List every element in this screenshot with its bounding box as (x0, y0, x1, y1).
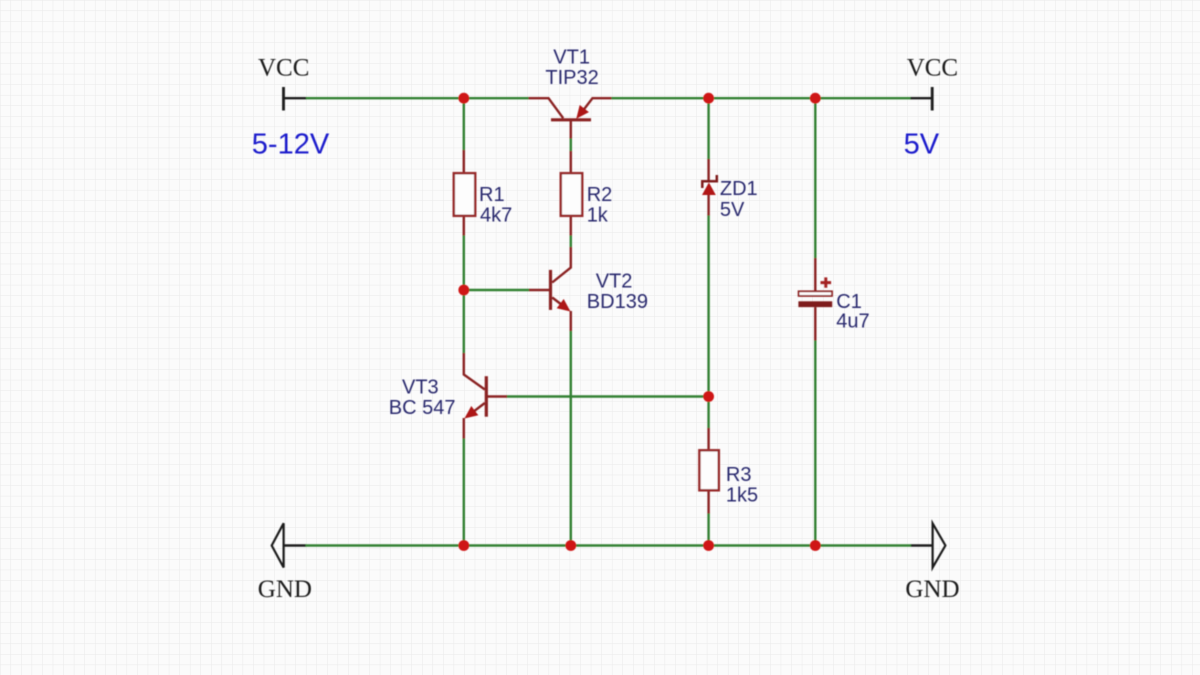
svg-text:ZD1: ZD1 (720, 178, 758, 200)
svg-text:VCC: VCC (907, 54, 958, 81)
transistor Q VT2 (NPN BD139) (529, 247, 571, 331)
svg-text:VT1: VT1 (553, 46, 590, 68)
junction dot top rail / ZD1 (703, 93, 714, 104)
svg-text:R2: R2 (587, 184, 613, 206)
svg-text:R3: R3 (726, 464, 752, 486)
svg-text:5V: 5V (720, 199, 745, 221)
capacitor C1 (polarized) (798, 258, 832, 341)
wire VT2 base horizontal (464, 289, 530, 291)
svg-text:VCC: VCC (258, 54, 309, 81)
svg-text:TIP32: TIP32 (545, 67, 598, 89)
resistor R2 (561, 151, 582, 236)
resistor R1 (454, 150, 475, 236)
junction dot bottom rail / C1 (810, 540, 821, 551)
wire column C (ZD1 to R3) (707, 215, 709, 429)
junction dot bottom rail / VT2 (565, 540, 576, 551)
junction dot bottom rail / VT3 (458, 540, 469, 551)
junction dot R1 / VT2 base (458, 285, 469, 296)
svg-text:VT3: VT3 (402, 376, 439, 398)
svg-text:5V: 5V (904, 128, 940, 160)
svg-text:R1: R1 (479, 184, 505, 206)
zener diode ZD1 (702, 159, 717, 216)
junction dot top rail / R1 (458, 93, 469, 104)
svg-text:5-12V: 5-12V (252, 128, 330, 160)
wire VT3 base horizontal (507, 395, 709, 397)
svg-text:4k7: 4k7 (480, 205, 512, 227)
wire column D (C1 to GND) (814, 340, 816, 546)
svg-text:GND: GND (258, 576, 312, 603)
svg-text:1k: 1k (587, 205, 609, 227)
wire column B (VT2 emitter to GND) (570, 331, 572, 546)
junction dot VT3 base / ZD1-R3 (703, 391, 714, 402)
svg-text:GND: GND (905, 576, 959, 603)
wire column A lower (VT3 emitter to GND) (463, 438, 465, 546)
transistor Q VT1 (PNP TIP32) (529, 98, 612, 138)
wire column A middle (R1 to VT3 collector) (463, 235, 465, 354)
junction dot bottom rail / R3 (703, 540, 714, 551)
wire column B (VT1 base to R2) (570, 138, 572, 152)
wire top rail left segment (306, 97, 529, 99)
junction dot top rail / C1 (810, 93, 821, 104)
ground symbol GND (left) (272, 523, 306, 567)
svg-text:1k5: 1k5 (726, 485, 758, 507)
power terminal VCC (right) (910, 87, 932, 111)
wire bottom GND rail (306, 544, 912, 546)
power terminal VCC (left) (284, 87, 307, 111)
transistor Q VT3 (NPN BC547, mirrored) (464, 353, 507, 439)
svg-text:BC 547: BC 547 (389, 397, 456, 419)
ground symbol GND (right) (911, 523, 946, 567)
resistor R3 (699, 428, 718, 514)
wire top rail right segment (612, 97, 911, 99)
svg-text:4u7: 4u7 (836, 310, 869, 332)
wire column D (VCC to C1) (814, 98, 816, 258)
svg-text:BD139: BD139 (587, 291, 648, 313)
svg-text:VT2: VT2 (596, 270, 633, 292)
wire column B (R2 to VT2 collector) (570, 235, 572, 248)
wire column A upper (VCC to R1) (463, 98, 465, 150)
wire column C (R3 to GND) (707, 513, 709, 546)
wire column C (VCC to ZD1) (707, 98, 709, 159)
